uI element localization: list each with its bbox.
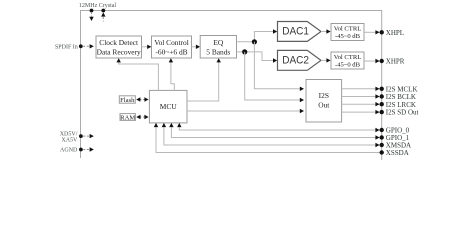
pin XHPL dot (380, 30, 384, 34)
arrow I2S LRCK (375, 102, 379, 106)
wire RAM to MCU dashed (140, 116, 146, 118)
block Vol CTRL2 -45~0 dB (331, 52, 364, 69)
svg-text:MCU: MCU (160, 102, 178, 111)
pin I2S MCLK dot (380, 87, 384, 91)
arrow into I2S Out in1 (300, 87, 304, 91)
block Vol CTRL1 -45~0 dB (331, 24, 364, 41)
wire MCU to GPIO_0 (179, 127, 375, 131)
svg-text:Flash: Flash (120, 97, 135, 104)
svg-text:Clock Detect: Clock Detect (99, 38, 139, 47)
wire MCU to XMSDA (164, 127, 376, 146)
wire junction L down to I2S Out (254, 42, 299, 89)
arrow GPIO_1 (375, 135, 379, 139)
arrow into MCU from Flash (144, 97, 148, 101)
arrow into I2S Out in3 (300, 109, 304, 113)
wire MCU to EQ control (187, 62, 219, 101)
svg-text:12MHz Crystal: 12MHz Crystal (79, 3, 116, 9)
wire junction L up to DAC1 (254, 32, 273, 42)
arrow into I2S Out in2 (300, 98, 304, 102)
arrow XMSDA (375, 143, 379, 147)
svg-text:DAC2: DAC2 (282, 55, 309, 67)
wire I2S MCLK (342, 88, 376, 90)
crystal pin XO dot (101, 9, 105, 13)
arrow up into MCU gpio1 (169, 123, 173, 127)
svg-text:XA5V: XA5V (61, 138, 78, 144)
block DAC2 (278, 50, 322, 70)
wire Vol CTRL1 to XHPL (364, 31, 376, 33)
wire I2S LRCK (342, 103, 376, 105)
node junction L (252, 39, 257, 44)
arrow up into Clock Detect (117, 58, 121, 62)
arrow into DAC1 (273, 29, 277, 33)
svg-text:RAM: RAM (120, 114, 135, 121)
block RAM (120, 114, 135, 121)
arrow up into MCU gpio0 (177, 123, 181, 127)
node junction R (242, 49, 247, 54)
wire EQ out R to junction (237, 51, 245, 53)
pin GPIO_0 dot (380, 128, 384, 132)
svg-text:I2S SD Out: I2S SD Out (386, 109, 419, 117)
svg-text:Vol CTRL: Vol CTRL (334, 26, 362, 33)
pin I2S SD Out dot (380, 110, 384, 114)
arrow into Vol Control (147, 45, 151, 49)
arrow XHPR (375, 59, 379, 63)
svg-text:I2S LRCK: I2S LRCK (386, 101, 416, 109)
wire MCU to GPIO_1 (171, 127, 375, 138)
svg-text:Vol CTRL: Vol CTRL (334, 54, 362, 61)
pin XD5V arrow (90, 134, 94, 138)
svg-text:-60~+6 dB: -60~+6 dB (155, 48, 187, 57)
arrow into Flash (136, 97, 140, 101)
arrow I2S MCLK (375, 87, 379, 91)
pin GPIO_1 dot (380, 135, 384, 139)
wire Flash to MCU dashed (140, 99, 146, 101)
wire junction R to DAC2 (245, 52, 274, 61)
pin SPDIF In arrow (90, 44, 94, 48)
arrow up into EQ (217, 58, 221, 62)
block EQ 5 Bands (200, 36, 236, 59)
wire MCU to Clock Detect control (119, 62, 159, 90)
svg-text:SPDIF In: SPDIF In (55, 44, 78, 50)
crystal pin XI arrow down (89, 17, 93, 21)
arrow into Vol CTRL1 (326, 29, 330, 33)
wire DAC1 to Vol CTRL1 (321, 31, 327, 33)
crystal pin XO dashed wire (102, 17, 104, 22)
svg-text:5 Bands: 5 Bands (206, 48, 230, 57)
arrow into MCU from RAM (144, 115, 148, 119)
pin I2S BCLK dot (380, 94, 384, 98)
block DAC1 (278, 22, 322, 42)
wire Vol CTRL2 to XHPR (364, 60, 376, 62)
pin XSSDA dot (380, 150, 384, 154)
arrow into EQ (196, 45, 200, 49)
pin SPDIF In dashed wire (83, 45, 89, 47)
arrow up into MCU xmsda (162, 123, 166, 127)
svg-text:Out: Out (318, 100, 330, 109)
arrow into DAC2 (273, 58, 277, 62)
svg-text:DAC1: DAC1 (282, 26, 309, 38)
svg-text:XD5V/: XD5V/ (60, 131, 78, 137)
pin AGND dot (79, 148, 83, 152)
arrow into Vol CTRL2 (326, 58, 330, 62)
svg-text:Data Recovery: Data Recovery (97, 48, 141, 57)
arrow I2S BCLK (375, 94, 379, 98)
svg-text:I2S: I2S (319, 91, 329, 100)
crystal pin XI dot (90, 9, 94, 13)
wire DAC2 to Vol CTRL2 (321, 59, 327, 61)
crystal pin XO arrow up (101, 12, 105, 16)
wire MCU to Vol Control control (171, 62, 174, 90)
wire junction R down to I2S Out (245, 52, 300, 100)
svg-text:AGND: AGND (60, 148, 78, 154)
svg-text:XHPR: XHPR (386, 58, 405, 66)
pin SPDIF In dot (79, 44, 83, 48)
pin AGND dashed wire (83, 149, 89, 151)
pin I2S LRCK dot (380, 102, 384, 106)
pin XD5V dashed wire (83, 135, 89, 137)
svg-text:-45~0 dB: -45~0 dB (335, 33, 361, 40)
block Flash (119, 96, 135, 103)
chip boundary (81, 11, 382, 161)
arrow I2S SD Out (375, 110, 379, 114)
block Vol Control -60~+6 dB (152, 36, 192, 58)
wire MCU to XSSDA (156, 127, 380, 153)
svg-text:XHPL: XHPL (386, 29, 404, 37)
block MCU (149, 90, 187, 123)
wire I2S SD Out (342, 111, 376, 113)
arrow into RAM (136, 115, 140, 119)
wire I2S BCLK (342, 96, 376, 98)
svg-text:XSSDA: XSSDA (386, 149, 409, 157)
wire Vol Control to EQ (192, 46, 197, 48)
wire EQ out L to junction (237, 41, 255, 43)
pin XD5V dot (79, 134, 83, 138)
pin XHPR dot (380, 59, 384, 63)
wire Clock Detect to Vol Control (142, 46, 148, 48)
arrow up into Vol Control (169, 58, 173, 62)
wire MCU to I2S Out control (187, 110, 300, 112)
crystal pin XI dashed wire (91, 12, 93, 17)
svg-text:-45~0 dB: -45~0 dB (335, 62, 361, 69)
arrow up into MCU xssda (154, 123, 158, 127)
pin AGND arrow (90, 147, 94, 151)
block I2S Out (306, 80, 342, 123)
arrow GPIO_0 (375, 128, 379, 132)
svg-text:EQ: EQ (213, 38, 224, 47)
arrow XHPL (375, 30, 379, 34)
svg-text:Vol Control: Vol Control (154, 38, 189, 47)
block Clock Detect / Data Recovery (96, 36, 142, 58)
pin XMSDA dot (380, 143, 384, 147)
